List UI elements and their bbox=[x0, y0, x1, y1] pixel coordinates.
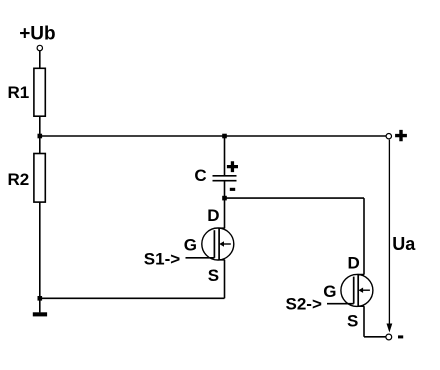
terminal +Ub bbox=[37, 45, 42, 50]
wire: Q2 gate lead bbox=[327, 303, 354, 305]
wire: Q2 drain lead (vertical) bbox=[363, 198, 365, 275]
output terminal + bbox=[386, 134, 391, 139]
wire: Q2 source lead down bbox=[363, 306, 365, 337]
resistor R2 bbox=[34, 154, 45, 203]
label - output bbox=[398, 335, 403, 338]
svg-text:R2: R2 bbox=[8, 170, 30, 189]
node A junction dot bbox=[38, 134, 43, 139]
svg-text:G: G bbox=[184, 236, 197, 255]
svg-text:D: D bbox=[207, 206, 219, 225]
svg-text:G: G bbox=[323, 282, 336, 301]
wire: bottom rail node B to Q1 source bbox=[40, 297, 225, 299]
wire: Q1 gate lead bbox=[186, 257, 215, 259]
wire: Q1 source to bottom rail bbox=[224, 260, 226, 299]
label capacitor - polarity bbox=[230, 188, 235, 191]
label + output bbox=[395, 130, 407, 141]
svg-text:S2->: S2-> bbox=[286, 295, 322, 314]
svg-text:Ua: Ua bbox=[392, 234, 416, 254]
output terminal - bbox=[386, 334, 392, 340]
wire: Q2 source to - output terminal bbox=[364, 336, 386, 338]
svg-text:S1->: S1-> bbox=[144, 249, 180, 268]
transistor Q1 (MOSFET driven by S1) bbox=[202, 228, 234, 260]
wire: top rail from node A to + output terminal bbox=[40, 135, 386, 137]
node B junction dot on bottom rail bbox=[38, 296, 43, 301]
wire: R2 down to ground bbox=[39, 202, 41, 312]
wire: +Ub terminal to R1 bbox=[39, 51, 41, 68]
svg-text:C: C bbox=[194, 166, 206, 185]
wire: capacitor C bottom lead to Q1 drain bbox=[224, 181, 226, 228]
svg-text:+Ub: +Ub bbox=[19, 23, 55, 44]
wire: node C to Q2 drain branch bbox=[225, 197, 365, 199]
node C junction dot (C minus, Q1 drain, Q2 drain net) bbox=[222, 196, 227, 201]
voltage arrow Ua (measurement arrow from + to -) bbox=[387, 140, 393, 333]
wire: R1 to R2 through node A bbox=[39, 116, 41, 153]
label capacitor + polarity bbox=[227, 161, 238, 172]
resistor R1 bbox=[34, 68, 45, 116]
capacitor C bbox=[213, 176, 237, 181]
svg-text:D: D bbox=[348, 253, 360, 272]
junction dot at capacitor top branch bbox=[222, 134, 227, 139]
svg-text:S: S bbox=[208, 266, 219, 285]
svg-text:R1: R1 bbox=[8, 83, 30, 102]
transistor Q2 (MOSFET driven by S2) bbox=[341, 274, 373, 306]
wire: capacitor C top lead bbox=[224, 136, 226, 175]
svg-text:S: S bbox=[347, 311, 358, 330]
ground bbox=[33, 312, 47, 316]
